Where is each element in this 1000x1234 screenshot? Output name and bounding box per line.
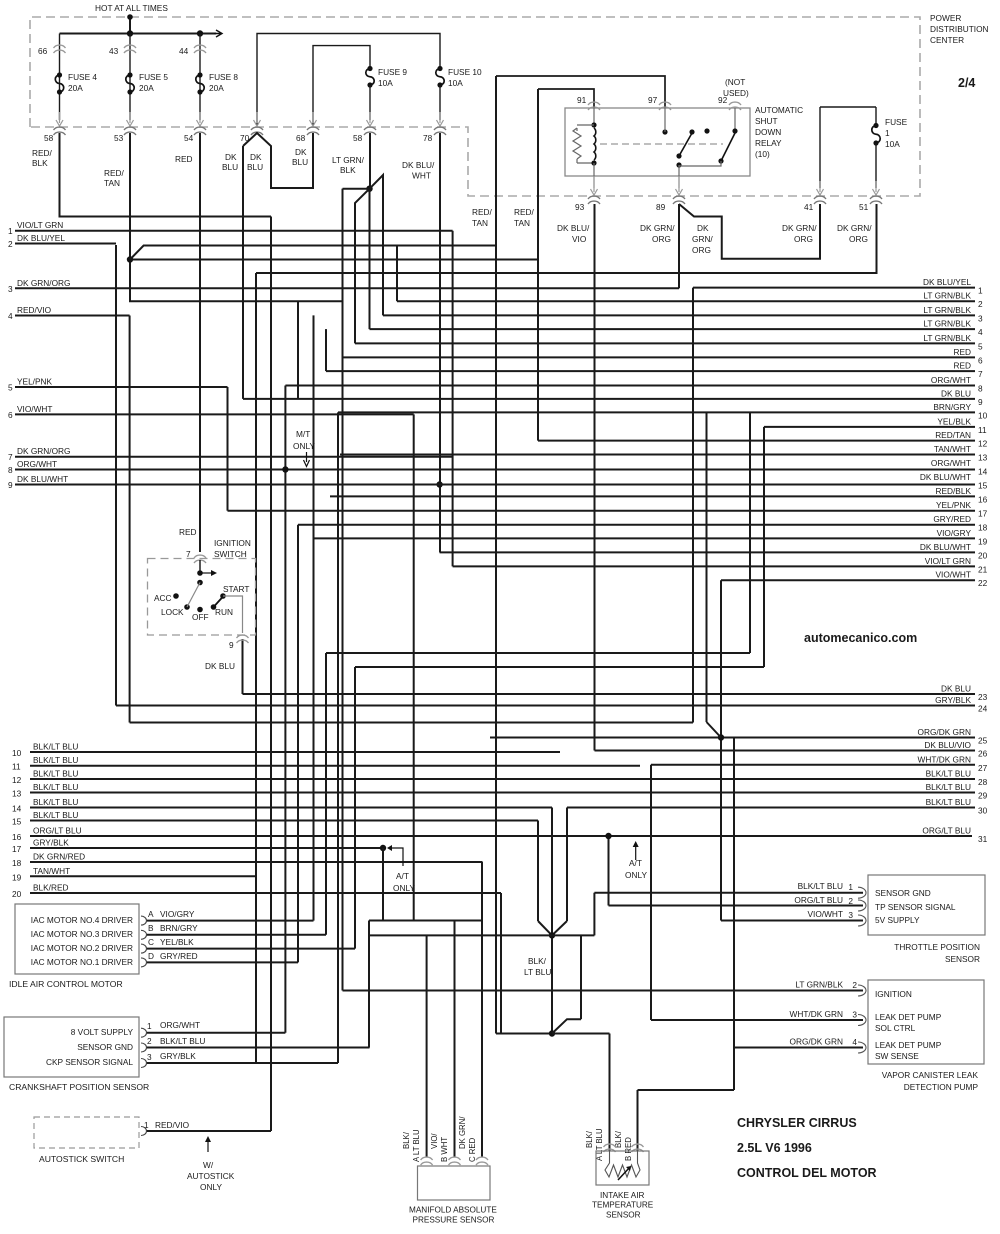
- wire CKP3 line: [146, 1062, 338, 1064]
- svg-text:LT GRN/BLK: LT GRN/BLK: [923, 319, 971, 329]
- wire x313 riser: [313, 315, 315, 920]
- svg-text:BLK: BLK: [340, 165, 356, 175]
- svg-text:LT GRN/BLK: LT GRN/BLK: [795, 980, 843, 990]
- svg-text:2/4: 2/4: [958, 76, 975, 90]
- IAC pin A: [141, 916, 147, 925]
- svg-text:15: 15: [12, 817, 22, 827]
- svg-text:BLK/LT BLU: BLK/LT BLU: [926, 797, 971, 807]
- svg-text:89: 89: [656, 202, 666, 212]
- svg-text:26: 26: [978, 749, 988, 759]
- svg-text:DK GRN/RED: DK GRN/RED: [33, 852, 85, 862]
- svg-text:TAN/WHT: TAN/WHT: [33, 866, 70, 876]
- svg-text:BLU: BLU: [292, 157, 308, 167]
- junction dot row8: [282, 466, 288, 472]
- svg-text:22: 22: [978, 578, 988, 588]
- svg-text:ONLY: ONLY: [200, 1182, 222, 1192]
- svg-text:MANIFOLD ABSOLUTE: MANIFOLD ABSOLUTE: [409, 1206, 497, 1215]
- fuse F1: [873, 123, 878, 128]
- wire fuse10 drop: [439, 85, 441, 120]
- svg-text:RELAY: RELAY: [755, 138, 782, 148]
- svg-text:DK: DK: [225, 152, 237, 162]
- svg-text:13: 13: [978, 453, 988, 463]
- wire vapor4 riser: [733, 738, 735, 1091]
- wire pin89 internal: [678, 166, 680, 176]
- svg-text:DK: DK: [697, 223, 709, 233]
- pin 91: [588, 102, 600, 105]
- svg-text:20: 20: [978, 550, 988, 560]
- svg-text:VIO/LT GRN: VIO/LT GRN: [17, 220, 63, 230]
- svg-text:5: 5: [978, 341, 983, 351]
- svg-text:BLK/RED: BLK/RED: [33, 883, 69, 893]
- arrow into pin 58: [369, 112, 371, 123]
- connector pin 54: [194, 127, 206, 130]
- svg-text:ONLY: ONLY: [393, 883, 415, 893]
- svg-text:91: 91: [577, 95, 587, 105]
- wire IAT feed line: [496, 1033, 552, 1035]
- connector pin 89: [673, 196, 685, 199]
- wire row8 riser: [284, 386, 286, 1033]
- wire funnel join: [538, 921, 552, 935]
- svg-text:1: 1: [8, 226, 13, 236]
- svg-text:GRY/BLK: GRY/BLK: [935, 695, 971, 705]
- wire IAC B riser: [325, 653, 327, 935]
- arrow into pin 51: [875, 181, 877, 192]
- wire pin92 stub: [734, 108, 736, 129]
- svg-text:RED/BLK: RED/BLK: [935, 486, 971, 496]
- svg-text:10A: 10A: [885, 139, 900, 149]
- svg-text:5V SUPPLY: 5V SUPPLY: [875, 915, 920, 925]
- svg-text:BLK/LT BLU: BLK/LT BLU: [33, 797, 78, 807]
- svg-text:BLK/LT BLU: BLK/LT BLU: [160, 1036, 205, 1046]
- svg-text:START: START: [223, 584, 249, 594]
- wire hot feed vertical: [129, 17, 131, 34]
- arrow continuation: [214, 30, 222, 37]
- svg-text:SENSOR GND: SENSOR GND: [875, 888, 931, 898]
- svg-text:1: 1: [978, 286, 983, 296]
- svg-text:IDLE AIR CONTROL MOTOR: IDLE AIR CONTROL MOTOR: [9, 979, 123, 989]
- svg-text:BLK/LT BLU: BLK/LT BLU: [33, 769, 78, 779]
- svg-text:53: 53: [114, 133, 124, 143]
- svg-text:10: 10: [978, 410, 988, 420]
- svg-text:44: 44: [179, 46, 189, 56]
- svg-text:BLU: BLU: [222, 162, 238, 172]
- svg-text:ORG/DK GRN: ORG/DK GRN: [790, 1037, 843, 1047]
- svg-text:YEL/PNK: YEL/PNK: [17, 377, 53, 387]
- connector pin 68: [307, 127, 319, 130]
- wire 58 RED/BLK: [60, 133, 272, 217]
- wire y920 left: [369, 920, 483, 922]
- svg-text:SENSOR GND: SENSOR GND: [77, 1042, 133, 1052]
- svg-text:LOCK: LOCK: [161, 607, 184, 617]
- svg-text:A/T: A/T: [396, 871, 409, 881]
- svg-text:SHUT: SHUT: [755, 116, 778, 126]
- svg-text:DK BLU/YEL: DK BLU/YEL: [17, 233, 65, 243]
- svg-text:3: 3: [8, 284, 13, 294]
- IAT thermistor: [605, 1151, 640, 1177]
- junction dot IAT: [549, 1030, 555, 1036]
- wire pin9 down: [242, 641, 244, 694]
- svg-text:VIO/WHT: VIO/WHT: [808, 909, 844, 919]
- connector 43: [124, 45, 136, 48]
- wire fuse1 top: [820, 106, 876, 108]
- svg-text:CRANKSHAFT POSITION SENSOR: CRANKSHAFT POSITION SENSOR: [9, 1082, 149, 1092]
- svg-text:GRY/BLK: GRY/BLK: [33, 838, 69, 848]
- svg-text:3: 3: [852, 1010, 857, 1020]
- wire x256 drop: [255, 273, 257, 1063]
- pin 97: [659, 102, 671, 105]
- svg-text:DK BLU: DK BLU: [205, 661, 235, 671]
- svg-text:WHT/DK GRN: WHT/DK GRN: [790, 1009, 843, 1019]
- wire 58b diag to 383: [370, 175, 384, 315]
- svg-text:LT GRN/: LT GRN/: [332, 155, 365, 165]
- svg-text:RED/VIO: RED/VIO: [155, 1120, 190, 1130]
- svg-text:1: 1: [144, 1120, 149, 1130]
- svg-text:IAC MOTOR NO.4 DRIVER: IAC MOTOR NO.4 DRIVER: [31, 915, 133, 925]
- svg-text:41: 41: [804, 202, 814, 212]
- svg-text:RUN: RUN: [215, 607, 233, 617]
- wire CKP2 line: [146, 1047, 370, 1049]
- connector pin 78: [434, 127, 446, 130]
- wire 58b diag to 355: [355, 189, 370, 344]
- svg-text:3: 3: [978, 313, 983, 323]
- svg-text:SENSOR: SENSOR: [606, 1211, 641, 1220]
- svg-text:68: 68: [296, 133, 306, 143]
- connector pin 41: [814, 196, 826, 199]
- svg-text:97: 97: [648, 95, 658, 105]
- wire IAT B drop: [637, 1090, 639, 1151]
- wire 58b branch left: [343, 188, 370, 190]
- wire 93 DK BLU/VIO down: [594, 204, 596, 751]
- svg-text:SENSOR: SENSOR: [945, 954, 980, 964]
- svg-text:8: 8: [8, 465, 13, 475]
- svg-text:OFF: OFF: [192, 612, 209, 622]
- svg-text:9: 9: [8, 480, 13, 490]
- TPS box: [868, 875, 985, 935]
- svg-text:DK GRN/ORG: DK GRN/ORG: [17, 278, 70, 288]
- svg-text:AUTOSTICK: AUTOSTICK: [187, 1171, 235, 1181]
- svg-text:DK BLU: DK BLU: [941, 388, 971, 398]
- relay blade 2: [721, 133, 735, 161]
- svg-text:BLK/LT BLU: BLK/LT BLU: [926, 782, 971, 792]
- TPS pin 1: [858, 887, 866, 898]
- fuse F5: [127, 72, 132, 77]
- svg-text:30: 30: [978, 806, 988, 816]
- svg-text:RED: RED: [179, 527, 197, 537]
- svg-text:DK GRN/: DK GRN/: [458, 1116, 467, 1149]
- junction dot: [127, 14, 133, 20]
- connector pin 93: [588, 196, 600, 199]
- CKP sensor box: [4, 1017, 139, 1077]
- svg-text:54: 54: [184, 133, 194, 143]
- relay blade 1: [679, 133, 692, 156]
- svg-text:A: A: [148, 909, 154, 919]
- svg-text:78: 78: [423, 133, 433, 143]
- fuse F8: [197, 72, 202, 77]
- svg-text:BRN/GRY: BRN/GRY: [933, 402, 971, 412]
- svg-text:FUSE 8: FUSE 8: [209, 72, 238, 82]
- svg-text:RED/: RED/: [514, 207, 535, 217]
- svg-text:LEAK DET PUMP: LEAK DET PUMP: [875, 1040, 942, 1050]
- svg-text:C RED: C RED: [468, 1137, 477, 1162]
- svg-text:GRY/BLK: GRY/BLK: [160, 1051, 196, 1061]
- svg-text:4: 4: [978, 327, 983, 337]
- wire row10 drop: [749, 412, 751, 653]
- svg-text:VIO/: VIO/: [430, 1133, 439, 1149]
- wire vapor3 riser: [650, 765, 652, 1020]
- svg-text:25: 25: [978, 736, 988, 746]
- svg-text:DK: DK: [250, 152, 262, 162]
- svg-text:VIO/WHT: VIO/WHT: [936, 570, 972, 580]
- svg-text:DK BLU/WHT: DK BLU/WHT: [920, 472, 971, 482]
- svg-text:FUSE 10: FUSE 10: [448, 67, 482, 77]
- svg-text:ORG: ORG: [652, 234, 671, 244]
- svg-text:ONLY: ONLY: [293, 441, 315, 451]
- wire IAC D riser: [297, 525, 299, 963]
- svg-text:BLK/LT BLU: BLK/LT BLU: [33, 810, 78, 820]
- svg-text:VIO/LT GRN: VIO/LT GRN: [925, 556, 971, 566]
- svg-text:DK BLU/WHT: DK BLU/WHT: [17, 474, 68, 484]
- wire pin7 into switch: [199, 560, 201, 573]
- svg-text:CENTER: CENTER: [930, 35, 964, 45]
- svg-text:21: 21: [978, 564, 988, 574]
- wire 97 RED/TAN down: [495, 76, 497, 1034]
- svg-text:29: 29: [978, 791, 988, 801]
- svg-text:YEL/BLK: YEL/BLK: [160, 937, 194, 947]
- arrow into pin 53: [129, 112, 131, 123]
- wire y722 link: [130, 722, 693, 724]
- svg-text:DISTRIBUTION: DISTRIBUTION: [930, 24, 989, 34]
- vapor pin 4: [858, 1042, 866, 1053]
- svg-text:TAN: TAN: [104, 178, 120, 188]
- wire CKP1 line: [146, 1032, 285, 1034]
- svg-text:IAC MOTOR NO.1 DRIVER: IAC MOTOR NO.1 DRIVER: [31, 957, 133, 967]
- wire pin97 feed: [496, 76, 665, 108]
- connector pin 51: [870, 196, 882, 199]
- svg-text:AUTOMATIC: AUTOMATIC: [755, 105, 803, 115]
- fuse F9: [367, 66, 372, 71]
- svg-text:TAN: TAN: [514, 218, 530, 228]
- svg-text:TAN/WHT: TAN/WHT: [934, 444, 971, 454]
- svg-text:BLK/LT BLU: BLK/LT BLU: [926, 769, 971, 779]
- junction dot 53: [127, 256, 133, 262]
- wire TPS2 link: [609, 905, 864, 907]
- MAP pin A conn: [421, 1157, 433, 1160]
- ignition switch dashed box: [148, 559, 256, 636]
- svg-text:BLK/: BLK/: [528, 956, 547, 966]
- svg-text:INTAKE AIR: INTAKE AIR: [600, 1191, 645, 1200]
- wire 54 RED: [199, 133, 201, 552]
- wire row11 drop: [763, 427, 765, 667]
- wire row1 drop: [692, 288, 694, 723]
- relay linkage dashed: [600, 143, 723, 145]
- svg-text:ONLY: ONLY: [625, 870, 647, 880]
- svg-text:VIO/WHT: VIO/WHT: [17, 404, 53, 414]
- wire vapor2 line: [343, 990, 864, 992]
- svg-text:12: 12: [12, 775, 22, 785]
- wire TPS1 link: [594, 892, 863, 894]
- relay box: [565, 108, 750, 176]
- svg-text:DOWN: DOWN: [755, 127, 781, 137]
- junction dot 58b: [366, 186, 372, 192]
- wire CKP3 riser: [337, 412, 339, 1063]
- svg-text:BLK: BLK: [32, 158, 48, 168]
- wire x383 lower: [382, 848, 384, 921]
- svg-text:5: 5: [8, 383, 13, 393]
- svg-text:TP SENSOR SIGNAL: TP SENSOR SIGNAL: [875, 902, 956, 912]
- svg-text:DK GRN/: DK GRN/: [782, 223, 817, 233]
- svg-text:LT BLU: LT BLU: [524, 967, 551, 977]
- svg-text:ORG/LT BLU: ORG/LT BLU: [33, 826, 82, 836]
- svg-text:DK BLU: DK BLU: [941, 684, 971, 694]
- wire row20 riser: [500, 893, 502, 1034]
- svg-text:7: 7: [8, 452, 13, 462]
- wire DK BLU main: [242, 146, 244, 399]
- wire TPS2 drop: [608, 836, 610, 906]
- svg-text:24: 24: [978, 704, 988, 714]
- svg-text:ORG/LT BLU: ORG/LT BLU: [794, 895, 843, 905]
- TPS pin 2: [858, 900, 866, 911]
- wire y920 TPS3: [721, 920, 863, 922]
- wire 89 DK GRN/ORG: [678, 204, 680, 288]
- svg-text:D: D: [148, 951, 154, 961]
- svg-text:4: 4: [8, 311, 13, 321]
- svg-text:1: 1: [147, 1021, 152, 1031]
- svg-text:BLK/: BLK/: [402, 1131, 411, 1149]
- wire MAP B drop: [454, 921, 456, 1158]
- IAC pin D: [141, 958, 147, 967]
- svg-text:1: 1: [848, 882, 853, 892]
- svg-text:11: 11: [978, 425, 987, 435]
- svg-text:DK BLU/YEL: DK BLU/YEL: [923, 277, 971, 287]
- svg-text:RED: RED: [953, 347, 971, 357]
- junction dot 78: [436, 481, 442, 487]
- svg-text:ACC: ACC: [154, 593, 172, 603]
- wire x298 riser: [297, 301, 299, 399]
- wire y653 link: [326, 652, 750, 654]
- svg-text:13: 13: [12, 789, 22, 799]
- wire funnel left: [537, 821, 539, 922]
- svg-text:31: 31: [978, 834, 988, 844]
- svg-text:58: 58: [353, 133, 363, 143]
- vapor box: [868, 980, 984, 1064]
- svg-text:BLK/: BLK/: [614, 1130, 623, 1148]
- svg-text:BLK/LT BLU: BLK/LT BLU: [798, 881, 843, 891]
- svg-text:FUSE 9: FUSE 9: [378, 67, 407, 77]
- ignition START wire: [223, 596, 243, 633]
- wire diag to dot25: [707, 722, 722, 738]
- svg-text:ORG/WHT: ORG/WHT: [931, 458, 971, 468]
- svg-text:LEAK DET PUMP: LEAK DET PUMP: [875, 1012, 942, 1022]
- svg-text:18: 18: [12, 858, 22, 868]
- wire vapor3 line: [651, 1019, 863, 1021]
- wire IAC D line: [146, 961, 298, 963]
- svg-text:GRY/RED: GRY/RED: [933, 514, 971, 524]
- svg-text:GRN/: GRN/: [692, 234, 713, 244]
- IAC pin C: [141, 944, 147, 953]
- svg-text:93: 93: [575, 202, 585, 212]
- svg-text:RED: RED: [175, 154, 193, 164]
- relay common link: [679, 161, 721, 166]
- vapor pin 3: [858, 1015, 866, 1026]
- IAT pin A conn: [604, 1144, 616, 1147]
- svg-text:HOT AT ALL TIMES: HOT AT ALL TIMES: [95, 3, 168, 13]
- svg-text:ORG/WHT: ORG/WHT: [160, 1020, 200, 1030]
- svg-text:FUSE: FUSE: [885, 117, 908, 127]
- svg-text:2: 2: [978, 299, 983, 309]
- svg-text:6: 6: [8, 410, 13, 420]
- svg-text:9: 9: [229, 640, 234, 650]
- svg-text:RED/: RED/: [32, 148, 53, 158]
- svg-text:DK BLU/WHT: DK BLU/WHT: [920, 542, 971, 552]
- svg-text:ORG: ORG: [849, 234, 868, 244]
- svg-text:(NOT: (NOT: [725, 77, 745, 87]
- svg-text:BLK/LT BLU: BLK/LT BLU: [33, 742, 78, 752]
- svg-text:CKP SENSOR SIGNAL: CKP SENSOR SIGNAL: [46, 1057, 133, 1067]
- svg-text:92: 92: [718, 95, 728, 105]
- svg-text:ORG/LT BLU: ORG/LT BLU: [922, 826, 971, 836]
- CKP pin 2: [141, 1043, 147, 1052]
- TPS pin 3: [858, 915, 866, 926]
- wire fuse8 drop: [199, 34, 201, 121]
- vapor pin 2: [858, 985, 866, 996]
- svg-text:CONTROL DEL MOTOR: CONTROL DEL MOTOR: [737, 1166, 877, 1180]
- svg-text:ORG: ORG: [794, 234, 813, 244]
- wire funnel line: [370, 934, 595, 936]
- svg-text:11: 11: [12, 762, 21, 772]
- wire fuse5 drop: [129, 34, 131, 121]
- svg-text:6: 6: [978, 355, 983, 365]
- svg-text:A LT BLU: A LT BLU: [412, 1129, 421, 1162]
- svg-text:VIO: VIO: [572, 234, 587, 244]
- relay coil: [593, 108, 595, 125]
- svg-text:W/: W/: [203, 1160, 214, 1170]
- svg-text:CHRYSLER CIRRUS: CHRYSLER CIRRUS: [737, 1116, 857, 1130]
- svg-text:2: 2: [848, 896, 853, 906]
- svg-text:LT GRN/BLK: LT GRN/BLK: [923, 291, 971, 301]
- autostick dashed box: [34, 1117, 139, 1148]
- arrow into pin 78: [439, 112, 441, 123]
- wire funnel right: [566, 808, 568, 922]
- svg-text:66: 66: [38, 46, 48, 56]
- wire MAP C drop: [481, 862, 483, 1157]
- junction dot row16: [605, 833, 611, 839]
- connector pin 70: [251, 127, 263, 130]
- wire CKP2 riser: [368, 921, 370, 1048]
- svg-text:23: 23: [978, 692, 988, 702]
- wire x271 drop: [270, 217, 272, 1132]
- arrow into pin 70: [256, 112, 258, 123]
- svg-text:SW SENSE: SW SENSE: [875, 1051, 919, 1061]
- wire vapor2 riser: [342, 189, 344, 991]
- wire IAC C riser: [354, 667, 356, 949]
- svg-text:BLK/LT BLU: BLK/LT BLU: [33, 755, 78, 765]
- junction dot funnel: [549, 932, 555, 938]
- svg-text:18: 18: [978, 523, 988, 533]
- wire top bus: [60, 33, 217, 35]
- svg-text:16: 16: [978, 494, 988, 504]
- svg-text:17: 17: [12, 844, 22, 854]
- svg-text:19: 19: [12, 872, 22, 882]
- wire 78 DK BLU/WHT: [439, 133, 441, 552]
- ignition arrow: [197, 570, 203, 576]
- svg-text:3: 3: [147, 1052, 152, 1062]
- IAC motor box: [15, 904, 139, 974]
- svg-text:4: 4: [852, 1037, 857, 1047]
- svg-text:ORG/WHT: ORG/WHT: [931, 375, 971, 385]
- svg-text:PRESSURE SENSOR: PRESSURE SENSOR: [413, 1216, 495, 1225]
- wire 70/68 DK BLU merge: [243, 133, 313, 188]
- svg-text:RED/TAN: RED/TAN: [935, 430, 971, 440]
